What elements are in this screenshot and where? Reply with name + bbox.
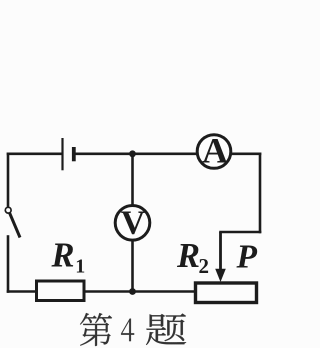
wire bottom-left horizontal [8, 290, 36, 293]
svg-text:R: R [176, 237, 200, 275]
resistor R1 (box) [37, 281, 85, 301]
slider arrow P (wiper of rheostat) [215, 232, 226, 282]
voltmeter V [115, 205, 150, 242]
junction node top (wire to voltmeter) [129, 150, 136, 157]
ammeter A [197, 131, 231, 171]
wire left vertical upper [7, 154, 10, 207]
svg-text:2: 2 [199, 254, 210, 278]
svg-text:P: P [236, 239, 258, 276]
caption character 题 [146, 314, 186, 345]
wire right vertical [259, 154, 262, 232]
rheostat R2 (box) [196, 283, 257, 303]
caption character 4 [121, 319, 134, 342]
wire jog horizontal to slider [221, 231, 261, 234]
wire left vertical lower [7, 237, 10, 292]
svg-text:1: 1 [75, 256, 85, 278]
wire top-left horizontal [8, 153, 62, 156]
svg-text:V: V [121, 205, 146, 242]
junction node bottom (voltmeter to bottom wire) [129, 288, 136, 295]
battery cell: long positive plate [61, 138, 63, 170]
label R2 [176, 237, 209, 278]
wire voltmeter branch vertical [131, 154, 134, 292]
wire bottom-middle horizontal [85, 290, 195, 293]
battery cell: short negative plate [72, 147, 76, 161]
label R1 [51, 237, 86, 278]
svg-text:A: A [202, 131, 228, 171]
caption character 第 [80, 313, 112, 346]
wire top-right horizontal [232, 153, 260, 156]
switch S (open knife switch) [5, 207, 20, 237]
svg-text:R: R [51, 237, 75, 275]
wire top-middle horizontal [76, 153, 197, 156]
